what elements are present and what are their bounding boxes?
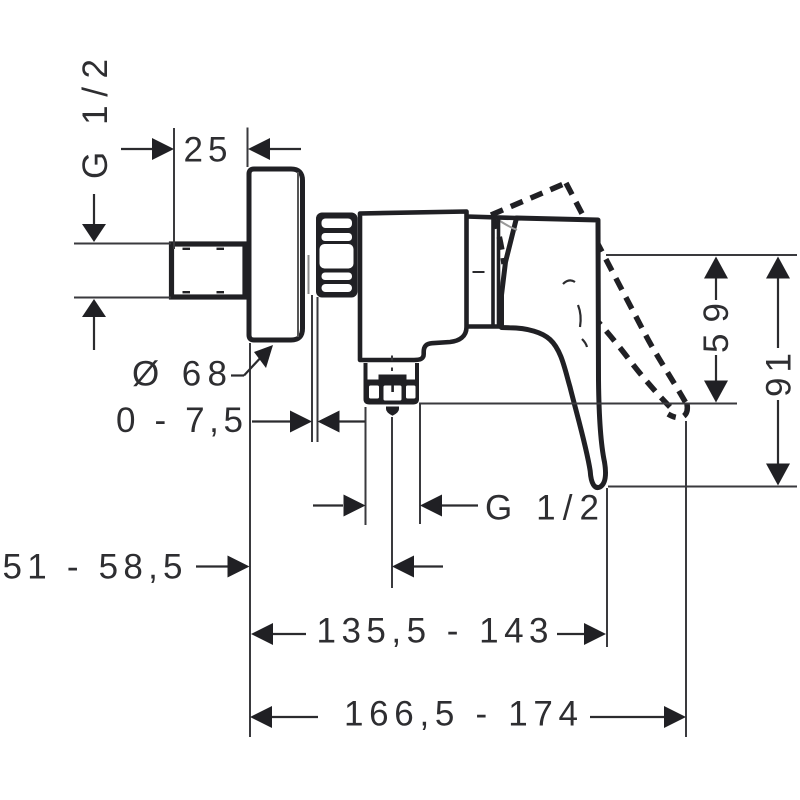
svg-text:G 1/2: G 1/2 [485, 489, 599, 528]
svg-text:G 1/2: G 1/2 [76, 59, 115, 179]
svg-text:0 - 7,5: 0 - 7,5 [116, 401, 243, 440]
svg-text:51 - 58,5: 51 - 58,5 [3, 548, 183, 587]
svg-text:166,5 - 174: 166,5 - 174 [344, 695, 578, 734]
svg-text:135,5 - 143: 135,5 - 143 [317, 612, 549, 651]
